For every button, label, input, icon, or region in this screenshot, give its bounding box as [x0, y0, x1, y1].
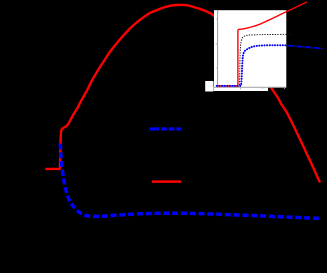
- inset y tick label patch: [205, 81, 213, 92]
- inset axes white background: [214, 10, 286, 87]
- inset bottom spine: [214, 86, 287, 88]
- legend sample: red solid line: [152, 180, 181, 183]
- inset blue dotted step curve: [217, 45, 322, 86]
- legend sample: blue dashed line: [150, 127, 182, 130]
- inset y ticks: [216, 43, 218, 45]
- inset black fine-dashed step curve: [217, 34, 292, 86]
- inset red solid step curve: [217, 2, 307, 86]
- inset x tick label strip: [214, 88, 268, 91]
- main red curve (solid, with threshold hook): [45, 5, 320, 183]
- inset x ticks: [240, 87, 242, 89]
- inset left spine: [217, 10, 219, 88]
- main blue dashed curve: [60, 144, 320, 219]
